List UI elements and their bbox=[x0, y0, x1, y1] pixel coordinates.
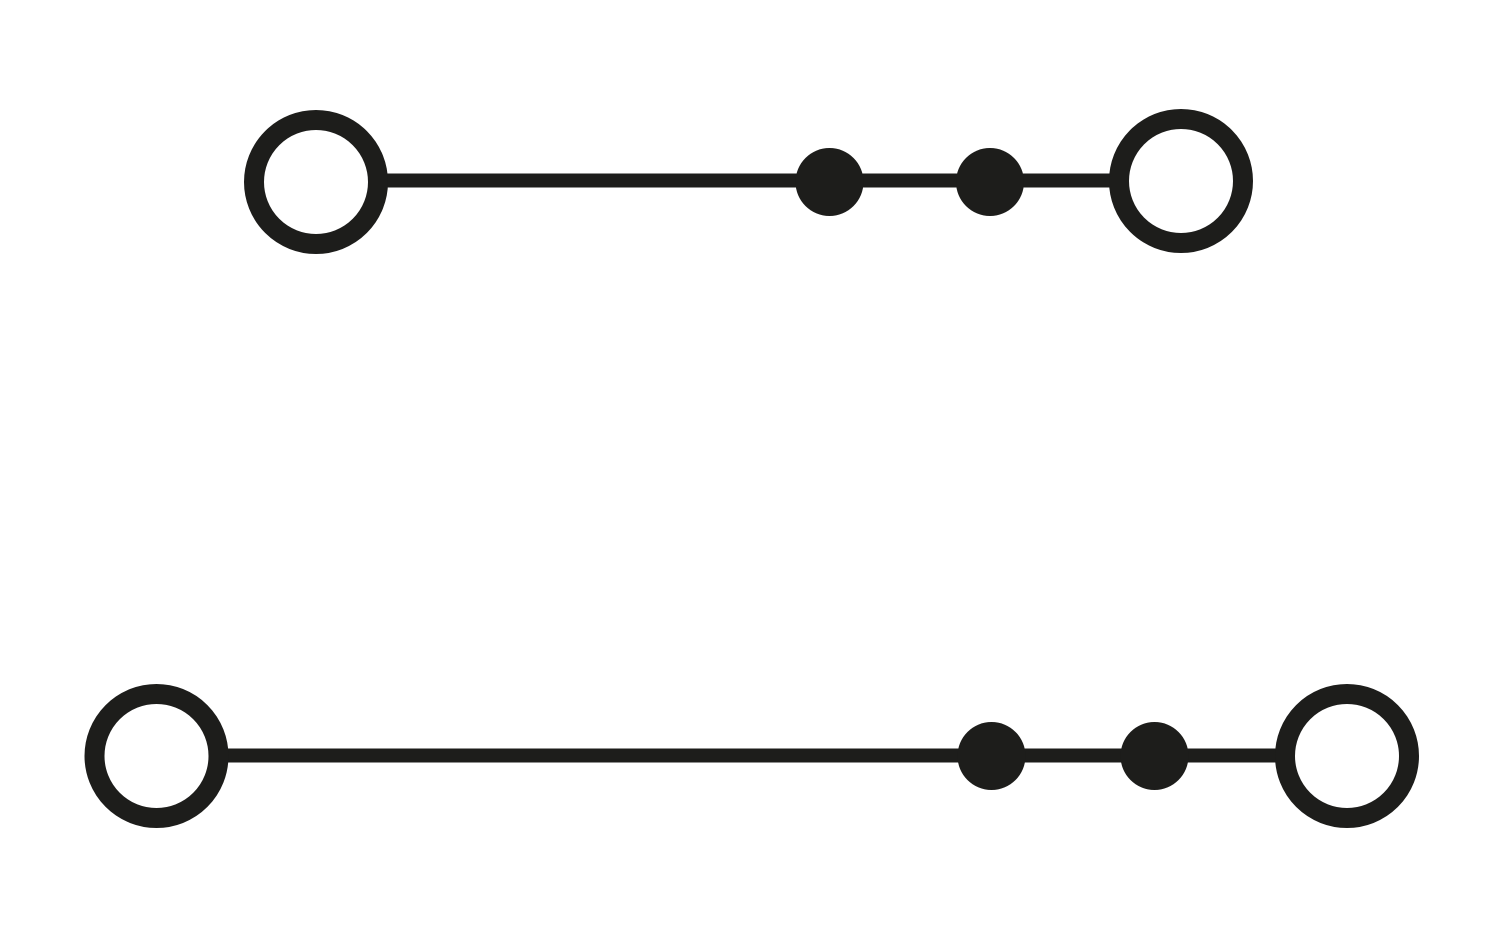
junction dot A1 (upper bridge contact point) bbox=[796, 148, 864, 216]
terminal clamp 1.2 (upper right screw connection) bbox=[1119, 119, 1243, 243]
junction dot B1 (lower bridge contact point) bbox=[958, 722, 1026, 790]
terminal clamp 2.2 (lower right screw connection) bbox=[1285, 694, 1409, 818]
junction dot B2 (lower bridge contact point) bbox=[1121, 722, 1189, 790]
wire (upper level conductor) bbox=[316, 174, 1181, 188]
terminal clamp 2.1 (lower left screw connection) bbox=[95, 694, 219, 818]
wire (lower level conductor) bbox=[157, 749, 1348, 763]
terminal clamp 1.1 (upper left screw connection) bbox=[254, 120, 378, 244]
junction dot A2 (upper bridge contact point) bbox=[956, 148, 1024, 216]
